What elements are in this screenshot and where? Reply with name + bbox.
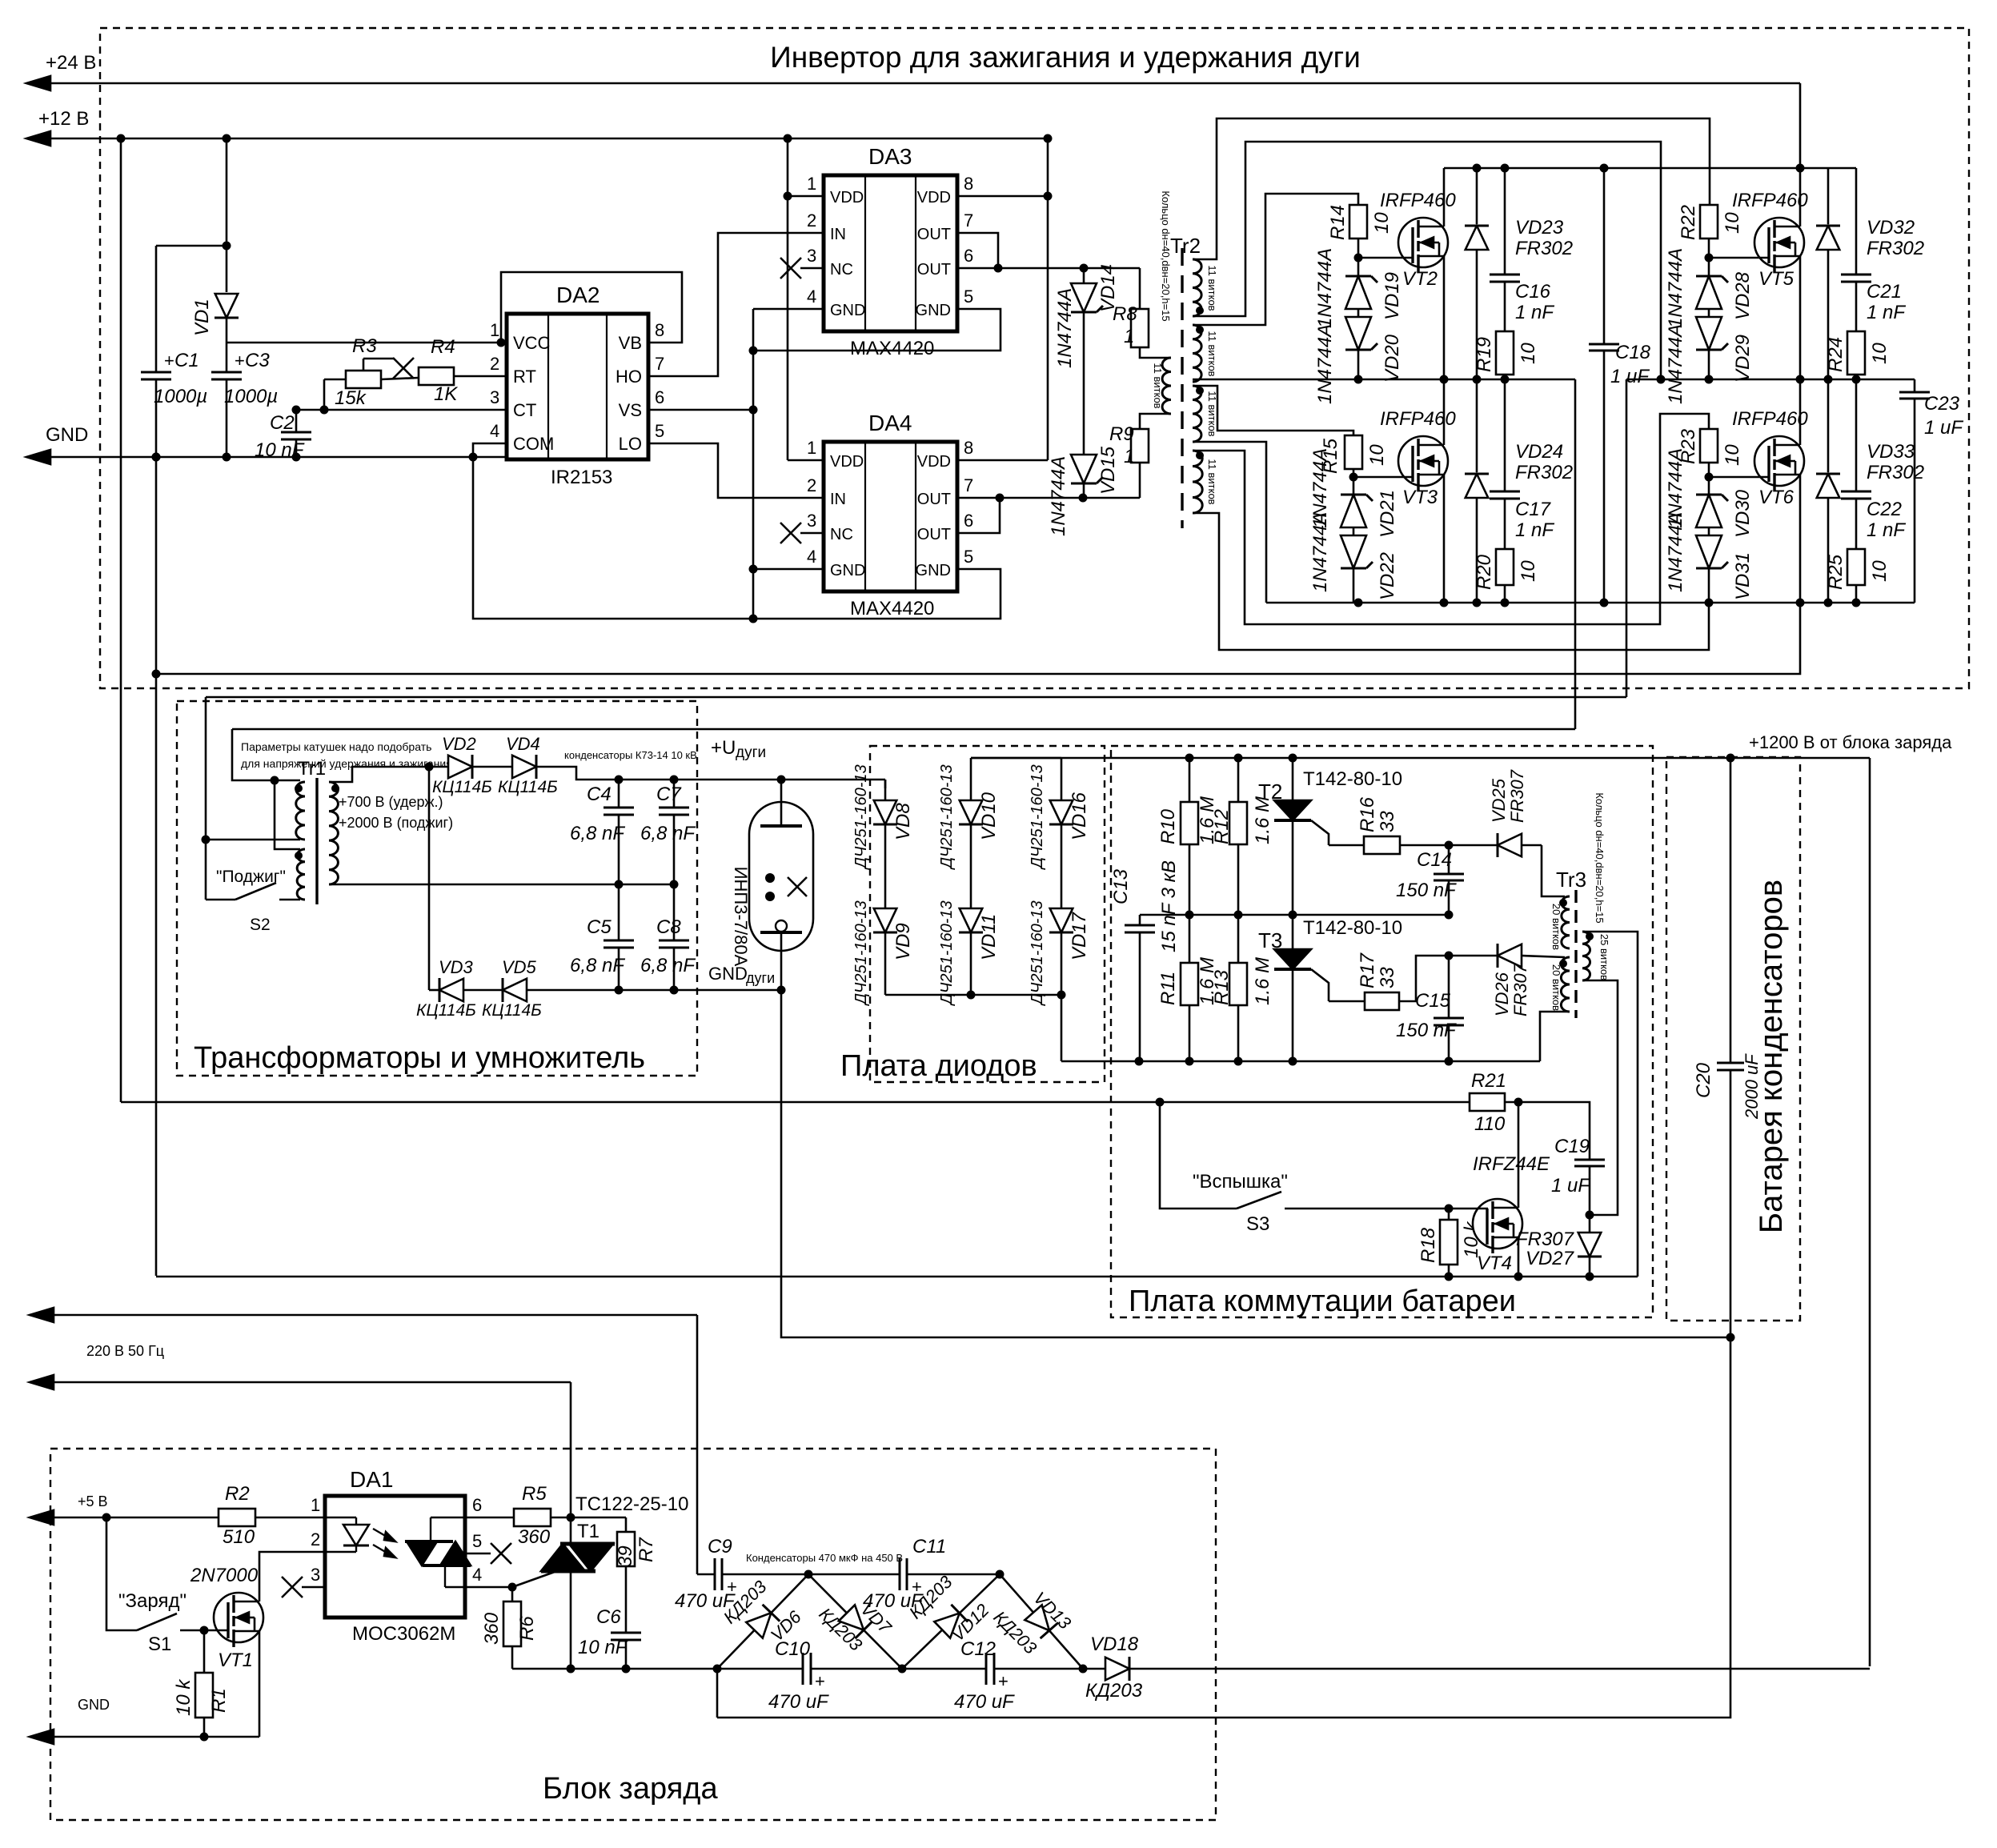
capacitor C1 <box>141 246 207 457</box>
svg-text:R25: R25 <box>1825 554 1847 590</box>
svg-text:S3: S3 <box>1246 1213 1269 1235</box>
pin 6 DA2 <box>655 387 664 407</box>
svg-text:C16: C16 <box>1515 281 1551 303</box>
wire DA3 OUT7 tie <box>957 233 998 268</box>
wire +12 to DA3/DA4 VDD1 <box>784 134 824 461</box>
wire w4 top to R23 <box>1193 414 1709 624</box>
svg-text:4: 4 <box>807 547 816 567</box>
wire VD25 to Tr3 <box>1542 845 1565 896</box>
label MOC3062M <box>352 1623 455 1645</box>
svg-text:КД203: КД203 <box>1085 1680 1143 1702</box>
resistor R18 <box>1418 1209 1482 1277</box>
resistor R5 <box>514 1483 575 1548</box>
resistor R12 <box>1211 758 1273 915</box>
wire HO to DA3 IN <box>648 233 824 376</box>
svg-text:VD3: VD3 <box>439 957 474 977</box>
resistor R3 trimmer <box>324 335 394 410</box>
svg-text:7: 7 <box>655 354 664 374</box>
pin 6 DA4 <box>964 511 973 531</box>
svg-text:11 витков: 11 витков <box>1152 363 1164 408</box>
resistor R8 <box>1113 268 1170 358</box>
wire +12 column left <box>117 134 126 1103</box>
resistor R6 <box>481 1587 538 1669</box>
capacitor C3 <box>211 343 278 457</box>
transistor VT1 2N7000 <box>190 1565 263 1671</box>
svg-text:1 nF: 1 nF <box>1515 302 1554 323</box>
battery switch board dashed border <box>1111 746 1653 1317</box>
wire Tr3 right top to VT4 rail <box>1584 932 1638 1277</box>
svg-text:2N7000: 2N7000 <box>190 1565 259 1586</box>
diode VD10 ДЧ251-160-13 <box>938 758 1000 908</box>
wire VD17 column to battery minus rail <box>1061 995 1063 1061</box>
svg-text:ДЧ251-160-13: ДЧ251-160-13 <box>1029 900 1046 1006</box>
title: Плата диодов <box>840 1049 1037 1083</box>
svg-text:25 витков: 25 витков <box>1598 934 1610 980</box>
title: Плата коммутации батареи <box>1129 1285 1516 1318</box>
svg-text:+U: +U <box>711 737 736 759</box>
svg-text:2000 uF: 2000 uF <box>1742 1053 1762 1120</box>
svg-text:C21: C21 <box>1867 281 1902 303</box>
label конденсаторы К73-14 10 кВ <box>564 749 697 761</box>
note text <box>241 740 452 770</box>
winding Tr3 left lower <box>1550 957 1570 1012</box>
capacitor C6 <box>578 1566 641 1669</box>
wire COM ground rail <box>473 457 1001 619</box>
svg-text:1N4744A: 1N4744A <box>1665 248 1686 328</box>
svg-text:C18: C18 <box>1615 342 1651 363</box>
svg-text:ТС122-25-10: ТС122-25-10 <box>575 1493 688 1515</box>
svg-text:MOC3062M: MOC3062M <box>352 1623 455 1645</box>
label DA1 <box>350 1467 393 1492</box>
zener VD22 <box>1309 512 1398 603</box>
label MAX4420 (DA4) <box>850 598 934 619</box>
svg-text:VD30: VD30 <box>1732 489 1754 538</box>
net +5 В label <box>78 1493 108 1509</box>
svg-text:R1: R1 <box>208 1688 230 1713</box>
svg-text:R18: R18 <box>1418 1227 1439 1263</box>
resistor R11 <box>1157 915 1218 1061</box>
svg-text:VS: VS <box>619 400 642 420</box>
svg-text:для напряжений удержания и заж: для напряжений удержания и зажигания <box>241 757 452 770</box>
svg-text:2: 2 <box>311 1529 320 1549</box>
winding Tr3 right <box>1582 932 1610 980</box>
svg-text:C11: C11 <box>912 1536 946 1557</box>
diode VD9 ДЧ251-160-13 <box>852 900 914 1006</box>
svg-text:ДЧ251-160-13: ДЧ251-160-13 <box>852 764 870 870</box>
resistor R15 <box>1320 435 1388 477</box>
wire VCC line <box>227 339 507 347</box>
svg-text:DA4: DA4 <box>868 411 912 435</box>
wire GND rail <box>26 450 507 464</box>
diode VD17 ДЧ251-160-13 <box>1029 900 1090 1006</box>
svg-text:+2000 В (поджиг): +2000 В (поджиг) <box>339 815 453 831</box>
svg-text:FR302: FR302 <box>1515 238 1573 259</box>
winding Tr1 secondary <box>329 782 339 884</box>
svg-text:5: 5 <box>655 421 664 441</box>
svg-text:VD8: VD8 <box>892 803 914 840</box>
junction VT6 gate node <box>1705 473 1714 482</box>
wire VS to driver gnd column <box>648 406 758 415</box>
pin 2 DA3 <box>807 210 816 230</box>
svg-text:1 nF: 1 nF <box>1515 519 1554 541</box>
svg-text:C14: C14 <box>1417 849 1452 871</box>
capacitor C23 <box>1899 379 1963 603</box>
wire driver GND column <box>749 309 758 623</box>
net GND label <box>46 424 88 446</box>
svg-text:VD25: VD25 <box>1489 778 1509 823</box>
svg-text:33: 33 <box>1377 811 1398 832</box>
wire to upper primary bottom <box>206 839 300 841</box>
wire GNDдуги line <box>527 986 786 995</box>
pin 5 DA4 <box>964 547 973 567</box>
svg-text:Плата диодов: Плата диодов <box>840 1049 1037 1083</box>
svg-text:T1: T1 <box>577 1521 600 1542</box>
svg-text:1: 1 <box>311 1495 320 1515</box>
winding Tr2 primary <box>1152 358 1171 414</box>
capacitor C11 <box>808 1536 1000 1612</box>
svg-text:470 uF: 470 uF <box>954 1691 1015 1713</box>
zener VD14 <box>1054 264 1119 455</box>
transformer Tr2 label <box>1170 234 1201 258</box>
svg-text:10: 10 <box>1869 343 1891 364</box>
wire +5V line <box>30 1510 325 1525</box>
wire w3 bottom to VT3 source <box>1193 442 1266 603</box>
wire COM to GND <box>469 443 507 462</box>
svg-text:C1: C1 <box>174 350 199 371</box>
svg-text:GND: GND <box>46 424 88 446</box>
wire VT1 drain to DA1 pin2 <box>259 1552 325 1601</box>
svg-text:R6: R6 <box>516 1616 538 1641</box>
svg-text:2: 2 <box>490 354 499 374</box>
svg-text:R21: R21 <box>1471 1070 1506 1092</box>
net +Uдуги label <box>711 737 766 761</box>
svg-text:OUT: OUT <box>917 526 951 543</box>
svg-text:NC: NC <box>830 261 853 279</box>
pin 5 DA2 <box>655 421 664 441</box>
resistor R10 <box>1157 758 1218 915</box>
svg-text:VD15: VD15 <box>1097 446 1119 495</box>
wire P2 entry to Tr1 top <box>232 729 300 785</box>
svg-text:10: 10 <box>1869 560 1891 582</box>
pin 1 DA4 <box>807 438 816 458</box>
capacitor C5 <box>570 884 634 990</box>
svg-text:6,8 nF: 6,8 nF <box>570 955 625 976</box>
svg-text:VDD: VDD <box>917 453 951 471</box>
junction C1 GND <box>152 453 161 462</box>
svg-text:T3: T3 <box>1258 928 1282 952</box>
capacitor C4 <box>570 780 634 884</box>
wire DA4 GND4 stub <box>753 568 824 571</box>
wire DA4 OUT7 tie <box>957 498 1000 533</box>
svg-text:Tr3: Tr3 <box>1556 868 1586 892</box>
winding Tr2 w4 <box>1193 451 1218 513</box>
winding Tr2 w3 <box>1193 386 1218 442</box>
wire w2 top to R14 <box>1193 194 1358 325</box>
svg-text:1N4744A: 1N4744A <box>1054 288 1076 368</box>
wire +1200 column right <box>1869 758 1871 1666</box>
resistor R23 <box>1678 428 1743 477</box>
svg-text:R16: R16 <box>1357 796 1378 832</box>
svg-text:Параметры катушек надо подобра: Параметры катушек надо подобрать <box>241 740 431 753</box>
wire Tr1 secondary top <box>331 763 434 783</box>
svg-text:VD29: VD29 <box>1732 335 1754 383</box>
svg-text:R11: R11 <box>1157 972 1179 1005</box>
svg-text:1 uF: 1 uF <box>1551 1175 1590 1197</box>
pin 7 DA3 <box>964 210 973 230</box>
svg-text:1N4744A: 1N4744A <box>1314 324 1336 404</box>
diode VD33 FR302 <box>1816 379 1924 603</box>
svg-text:6: 6 <box>655 387 664 407</box>
svg-text:КЦ114Б: КЦ114Б <box>432 778 492 796</box>
svg-text:6,8 nF: 6,8 nF <box>640 823 696 844</box>
transistor VT3 IRFP460 <box>1353 379 1456 603</box>
svg-text:R14: R14 <box>1327 205 1349 240</box>
inverter block dashed border <box>100 28 1969 688</box>
svg-text:1.6 M: 1.6 M <box>1252 957 1273 1005</box>
svg-text:1 uF: 1 uF <box>1924 417 1963 439</box>
svg-text:39: 39 <box>615 1545 636 1567</box>
resistor R22 <box>1678 205 1743 258</box>
svg-text:C12: C12 <box>960 1638 996 1660</box>
svg-text:IRFP460: IRFP460 <box>1732 190 1808 211</box>
diode VD16 ДЧ251-160-13 <box>1029 758 1090 908</box>
resistor R1 <box>173 1626 230 1742</box>
svg-text:6,8 nF: 6,8 nF <box>640 955 696 976</box>
svg-text:VT6: VT6 <box>1758 487 1794 508</box>
svg-text:5: 5 <box>964 287 973 307</box>
svg-text:150 nF: 150 nF <box>1396 880 1457 901</box>
wire +12 to R21 line <box>121 1098 1470 1107</box>
svg-text:VT1: VT1 <box>218 1650 253 1671</box>
wire 220V line B <box>30 1375 571 1544</box>
wire +1200 to VD10/VD16 tops <box>971 757 1061 760</box>
transformer Tr3 label <box>1556 868 1586 892</box>
svg-text:10: 10 <box>1722 444 1743 466</box>
svg-text:R7: R7 <box>636 1537 657 1562</box>
svg-text:C7: C7 <box>656 784 682 805</box>
svg-text:Конденсаторы 470 мкФ на 450 В: Конденсаторы 470 мкФ на 450 В <box>746 1552 903 1564</box>
svg-text:7: 7 <box>964 210 973 230</box>
switch S2 <box>206 868 300 934</box>
wire P1 entry column <box>202 697 211 900</box>
svg-text:VD31: VD31 <box>1732 552 1754 600</box>
svg-text:GND: GND <box>708 964 748 984</box>
svg-text:15k: 15k <box>335 387 367 409</box>
junction C3 GND <box>223 453 231 462</box>
capacitor C13 <box>1110 860 1180 1061</box>
svg-text:C17: C17 <box>1515 499 1552 520</box>
svg-text:VD17: VD17 <box>1069 911 1090 960</box>
svg-text:VD19: VD19 <box>1381 272 1403 320</box>
svg-text:C9: C9 <box>708 1536 732 1557</box>
wire w3 top to R15 <box>1193 386 1353 435</box>
junction C2/CT <box>292 406 301 415</box>
title: Блок заряда <box>543 1772 718 1806</box>
diode VD1 <box>191 134 239 343</box>
resistor R9 <box>1109 414 1170 498</box>
svg-text:VD16: VD16 <box>1069 792 1090 840</box>
resistor R13 <box>1211 915 1273 1061</box>
svg-text:VT3: VT3 <box>1402 487 1438 508</box>
svg-text:+700 В (удерж.): +700 В (удерж.) <box>339 794 443 810</box>
pin 4 DA3 <box>807 287 816 307</box>
svg-text:S2: S2 <box>250 916 271 934</box>
svg-text:Плата коммутации батареи: Плата коммутации батареи <box>1129 1285 1516 1318</box>
svg-text:5: 5 <box>472 1531 482 1551</box>
svg-text:HO: HO <box>616 367 642 387</box>
svg-text:GND: GND <box>830 302 865 319</box>
capacitor C8 <box>640 884 696 990</box>
svg-text:NC: NC <box>830 526 853 543</box>
capacitor C22 <box>1841 379 1906 541</box>
wire VT1 gate <box>204 1630 229 1632</box>
svg-text:10: 10 <box>1366 444 1388 466</box>
svg-text:FR302: FR302 <box>1867 238 1924 259</box>
junction VT2 gate node <box>1354 254 1363 263</box>
svg-text:Кольцо dн=40,dвн=20,h=15: Кольцо dн=40,dвн=20,h=15 <box>1594 792 1606 923</box>
thyristor T2 Т142-80-10 <box>1258 758 1402 915</box>
wire GND long line <box>152 603 1801 679</box>
svg-text:6: 6 <box>472 1495 482 1515</box>
pin 3 DA4 <box>807 511 816 531</box>
capacitor C16 <box>1490 168 1554 323</box>
svg-text:дуги: дуги <box>736 744 766 761</box>
no-connect X DA1 pin5 <box>465 1543 511 1564</box>
resistor R21 <box>1470 1070 1523 1135</box>
svg-text:1N4744A: 1N4744A <box>1048 456 1069 536</box>
optocoupler DA1 MOC3062M <box>325 1496 471 1618</box>
svg-text:360: 360 <box>481 1612 503 1645</box>
junction VT5 gate node <box>1705 254 1714 263</box>
resistor R24 <box>1825 282 1891 379</box>
zener VD20 <box>1314 309 1403 404</box>
wire DA3 GND4 stub <box>753 308 824 311</box>
label DA3 <box>868 144 912 169</box>
pin 1 DA1 <box>311 1495 320 1515</box>
wire thyristor mid rail <box>1140 911 1454 920</box>
wire LO to DA4 IN <box>648 443 824 498</box>
junction charge node A <box>804 1570 813 1579</box>
svg-text:R4: R4 <box>431 336 455 358</box>
svg-text:150 nF: 150 nF <box>1396 1020 1457 1041</box>
svg-text:OUT: OUT <box>917 261 951 279</box>
svg-text:"Поджиг": "Поджиг" <box>216 868 286 886</box>
diode VD26 FR307 <box>1492 944 1565 1016</box>
winding Tr1 primary upper <box>295 782 305 840</box>
junction +1200 bottom <box>0 0 1 1</box>
wire R17 to VD26 line <box>1399 952 1498 1002</box>
pin 8 DA2 <box>655 320 664 340</box>
svg-text:C13: C13 <box>1110 868 1132 904</box>
pin 3 DA2 <box>490 387 499 407</box>
capacitor C10 <box>768 1638 902 1713</box>
svg-text:VDD: VDD <box>917 189 951 206</box>
wire charge mid rail <box>512 1665 803 1718</box>
svg-text:R22: R22 <box>1678 205 1699 240</box>
wire VT4 source <box>1518 1237 1520 1277</box>
svg-text:LO: LO <box>619 434 642 454</box>
svg-text:1000µ: 1000µ <box>154 386 207 407</box>
resistor R17 <box>1329 952 1399 1010</box>
resistor R4 <box>381 336 507 405</box>
no-connect X DA1 pin3 <box>282 1577 325 1597</box>
svg-text:C8: C8 <box>656 916 681 938</box>
pin 8 DA3 <box>964 174 973 194</box>
svg-text:Инвертор для зажигания и удерж: Инвертор для зажигания и удержания дуги <box>770 41 1361 74</box>
wire VT4 source rail <box>156 1273 1638 1281</box>
no-connect X DA4 pin3 <box>780 523 824 543</box>
wire +24V rail <box>26 76 1800 168</box>
svg-text:VD18: VD18 <box>1090 1634 1139 1655</box>
pin 8 DA4 <box>964 438 973 458</box>
transformer Tr1 core <box>315 778 318 904</box>
label MAX4420 (DA3) <box>850 338 934 359</box>
svg-text:VD9: VD9 <box>892 923 914 960</box>
svg-text:VD24: VD24 <box>1515 441 1563 463</box>
junction R3/CT <box>320 406 329 415</box>
capacitor C9 <box>675 1536 808 1612</box>
pin 6 DA3 <box>964 246 973 266</box>
svg-text:DA3: DA3 <box>868 144 912 169</box>
resistor R7 <box>571 1517 657 1567</box>
svg-text:7: 7 <box>964 475 973 495</box>
wire battery minus column <box>717 1337 1730 1718</box>
label Кольцо Tr3 <box>1594 792 1606 923</box>
pin 6 DA1 <box>472 1495 482 1515</box>
svg-text:IRFP460: IRFP460 <box>1732 408 1808 430</box>
switch S1 <box>106 1517 204 1655</box>
pin 4 DA1 <box>472 1565 482 1585</box>
transistor VT5 IRFP460 <box>1709 168 1808 379</box>
svg-text:VD33: VD33 <box>1867 441 1915 463</box>
thyristor T3 Т142-80-10 <box>1258 915 1402 1061</box>
pin 2 DA4 <box>807 475 816 495</box>
svg-text:Tr2: Tr2 <box>1170 234 1201 258</box>
svg-text:C4: C4 <box>587 784 612 805</box>
capacitor C19 <box>1551 1136 1605 1220</box>
zener VD21 <box>1309 448 1398 538</box>
zener VD15 <box>1048 446 1119 536</box>
svg-text:C23: C23 <box>1924 393 1960 415</box>
svg-text:VD20: VD20 <box>1381 334 1403 383</box>
svg-text:6: 6 <box>964 511 973 531</box>
transistor VT2 IRFP460 <box>1358 168 1456 379</box>
pin 1 DA3 <box>807 174 816 194</box>
diode VD27 FR307 <box>1516 1215 1602 1277</box>
svg-text:4: 4 <box>807 287 816 307</box>
svg-text:R19: R19 <box>1474 337 1495 372</box>
svg-text:C2: C2 <box>270 412 295 434</box>
svg-text:IN: IN <box>830 226 846 243</box>
wire +12 to VDD8 column <box>957 134 1053 461</box>
transformers block dashed border <box>177 701 697 1076</box>
svg-text:GND: GND <box>916 562 951 579</box>
svg-text:1: 1 <box>1124 446 1134 467</box>
svg-text:C3: C3 <box>245 350 270 371</box>
svg-text:4: 4 <box>472 1565 482 1585</box>
pin 1 DA2 <box>490 320 499 340</box>
wire VD4 to +U line <box>536 767 885 784</box>
svg-text:R2: R2 <box>225 1483 250 1505</box>
resistor R16 <box>1329 796 1400 854</box>
winding Tr3 left upper <box>1550 896 1570 950</box>
svg-text:Tr1: Tr1 <box>298 758 326 780</box>
svg-text:+12 В: +12 В <box>38 108 89 130</box>
capacitor C20 <box>1693 758 1762 1337</box>
IC DA4 MAX4420 <box>824 442 957 591</box>
label DA2 <box>556 283 600 307</box>
wire diode board bottom tie <box>885 991 1066 1000</box>
